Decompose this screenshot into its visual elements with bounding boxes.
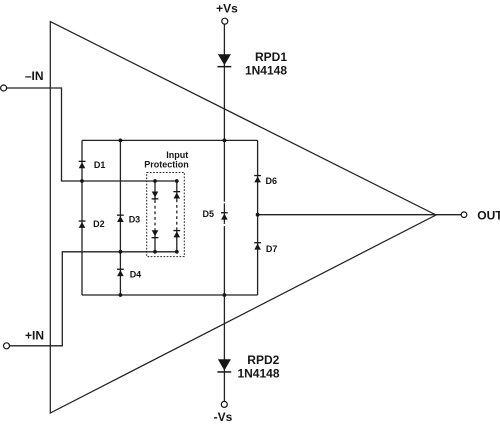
- svg-text:RPD1: RPD1: [255, 50, 287, 64]
- svg-text:D5: D5: [202, 209, 214, 219]
- svg-text:–IN: –IN: [25, 69, 44, 83]
- svg-text:1N4148: 1N4148: [245, 63, 287, 77]
- svg-text:-Vs: -Vs: [214, 410, 233, 424]
- svg-text:D3: D3: [129, 214, 141, 224]
- svg-text:OUT: OUT: [477, 209, 500, 223]
- svg-text:+IN: +IN: [25, 328, 44, 342]
- svg-text:D4: D4: [130, 270, 142, 280]
- svg-text:D2: D2: [93, 219, 105, 229]
- svg-text:D1: D1: [94, 160, 106, 170]
- svg-text:RPD2: RPD2: [247, 353, 279, 367]
- svg-text:+Vs: +Vs: [216, 2, 238, 16]
- svg-text:D7: D7: [266, 244, 278, 254]
- svg-text:D6: D6: [266, 176, 278, 186]
- svg-text:Protection: Protection: [144, 160, 189, 170]
- svg-text:1N4148: 1N4148: [237, 367, 279, 381]
